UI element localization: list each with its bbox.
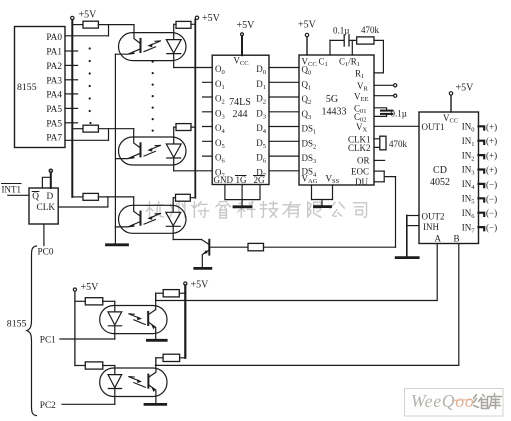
wire opto U9 output junction [155,293,157,300]
svg-text:(+): (+) [486,122,497,132]
ellipsis dots PA bus [89,47,92,124]
pin CLK1 label [348,134,383,144]
svg-text:+5V: +5V [298,20,317,31]
svg-text:CLK: CLK [37,203,56,213]
wire Q-bar output to INT1 [8,194,29,196]
svg-text:OUT2: OUT2 [422,212,445,222]
pin EOC label [351,166,384,176]
svg-text:OR: OR [357,156,370,166]
node +5V bottom-right [184,280,209,291]
wire 470k to R1 pin [374,40,383,73]
wire PA0 junction [108,25,110,36]
svg-text:(−): (−) [486,179,497,189]
svg-text:INH: INH [423,222,439,232]
svg-text:0.1µ: 0.1µ [333,26,349,36]
optocoupler U5 phototransistor [115,197,140,228]
optocoupler U3 light arrow [144,41,161,52]
capacitor C1 0.1u [330,26,357,47]
resistor R7 (Q1 base) [248,243,396,250]
svg-text:+5V: +5V [191,280,210,291]
pin C02 label [354,112,387,124]
wire B to opto PC2 output [155,244,458,366]
pin DU label [355,177,384,187]
wire PA7 junction [108,129,110,141]
resistor R2 (PA7 pull-up) [72,125,133,132]
optocoupler U4 (PA7 channel) body [119,137,187,165]
wire DU to base resistor [395,177,397,248]
brace 8155 port C [27,246,37,416]
pin VSS label [326,174,340,200]
char si [353,203,366,218]
resistor R5 (CLK pull-up) [72,193,133,200]
svg-text:PA3: PA3 [46,76,62,86]
svg-text:4052: 4052 [430,177,450,188]
char jiang [192,202,209,218]
svg-text:WeeQoo: WeeQoo [411,391,474,411]
ground opto emitter rail [107,243,128,246]
pin PA7 label and wire [46,133,108,143]
watermark WeeQoo box [405,389,504,417]
pin PC1 label and wire [40,336,115,346]
svg-text:A: A [435,234,442,244]
optocoupler U10 light arrow [129,377,146,388]
IC U8 CD4052 box [419,112,479,244]
ground Q1 emitter [195,267,211,270]
resistor R12 (PC1 collector pull-up) [156,290,186,297]
pins IN0-IN7 labels [462,122,476,235]
D flip-flop labels [32,192,55,213]
optocoupler U3 (PA0 channel) body [119,33,187,61]
svg-text:GND: GND [214,175,234,185]
optocoupler U10 phototransistor [148,358,156,403]
ellipsis dots opto column [152,61,154,132]
svg-text:EOC: EOC [351,166,369,176]
svg-text:INT1: INT1 [2,185,22,195]
svg-text:PA5: PA5 [46,119,62,129]
pin VR label and terminal [357,81,397,93]
pins IN0-IN7 stubs [479,126,485,230]
pins O1-O6 stubs [203,82,213,156]
pin OR label and stub [357,156,385,166]
pin VAG label [302,174,318,200]
svg-text:(+): (+) [486,151,497,161]
pin Vcc CD4052 [443,92,458,125]
optocoupler U4 LED [166,127,181,171]
wire +5V right rail [194,20,196,198]
svg-text:PA5: PA5 [46,105,62,115]
label 5G 14433 [322,94,347,118]
wire VAG/VSS join [312,200,333,206]
wire INT1 overline [2,183,22,185]
wires D0-D7 to 14433 [269,68,299,171]
ground opto U9 emitter [147,339,166,342]
capacitor C2 0.1u [381,109,407,119]
pin INH label [407,222,440,232]
svg-text:+5V: +5V [202,13,221,24]
label INT1 with overline [2,185,22,195]
svg-text:OUT1: OUT1 [422,122,445,132]
svg-text:(+): (+) [486,136,497,146]
svg-text:8155: 8155 [7,319,27,330]
svg-text:+5V: +5V [456,83,475,94]
svg-text:(−): (−) [486,194,497,204]
wire LED1 cathode to 74LS244 O0 [174,67,213,69]
wire CLK junction to flip-flop [58,197,108,207]
svg-text:0.1µ: 0.1µ [391,109,407,119]
svg-text:(−): (−) [486,208,497,218]
pin PA4 label and stub [46,91,77,101]
D flip-flop U2 box [29,188,58,224]
wire GND/1G/2G join [225,185,260,206]
svg-text:Q: Q [32,192,39,202]
pin OUT2 label [407,212,445,222]
node D input terminal [42,169,52,188]
transistor Q1 [202,240,249,268]
svg-text:470k: 470k [361,25,380,35]
wire VX to OUT1 [374,125,419,127]
pins D0-D7 labels [256,64,267,179]
wire LED3 cathode to Q1 collector [173,239,201,241]
svg-text:DU: DU [355,177,368,187]
wire EOC-DU bracket [384,171,395,182]
node +5V top-left [71,10,98,21]
pins GND 1G 2G labels [214,175,266,185]
svg-text:1G: 1G [236,175,248,185]
svg-text:PA1: PA1 [46,48,62,58]
char you [283,202,300,218]
svg-text:PA2: PA2 [46,62,62,72]
char gong [330,202,345,216]
svg-text:+5V: +5V [81,282,100,293]
optocoupler U9 phototransistor [148,293,156,339]
pin VEE label and terminal [354,91,397,103]
optocoupler U9 light arrow [129,314,146,325]
optocoupler U9 LED [108,301,122,339]
label CD4052 [430,165,450,188]
optocoupler U9 (PC1 channel) body [100,306,167,334]
pin C1/R1 label [339,40,360,68]
optocoupler U5 LED [166,198,181,240]
char rui [216,202,231,219]
pin C1 label [319,40,331,68]
ground 14433 [315,205,331,208]
svg-text:PA7: PA7 [46,133,62,143]
svg-text:CLK2: CLK2 [348,143,371,153]
svg-text:PC1: PC1 [40,336,56,346]
svg-text:8155: 8155 [17,82,37,93]
labels analog input polarity [486,122,497,233]
watermark weiku hanzi [474,394,502,409]
overlines 1G 2G [236,175,265,177]
wire LED2 cathode to 74LS244 O7 [174,170,213,172]
optocoupler U5 (DU channel) body [119,205,187,233]
svg-text:(−): (−) [486,223,497,233]
pin Vcc 74LS244 [233,33,248,67]
optocoupler U10 LED [108,366,122,405]
char ke [237,202,255,218]
resistor R8 470k [357,25,380,44]
svg-text:CD: CD [433,165,447,176]
svg-text:B: B [454,234,460,244]
wire LED4 cathode to PC1 [114,338,116,340]
svg-text:PA4: PA4 [46,91,62,101]
resistor R1 (PA0 pull-up) [72,21,134,28]
svg-text:74LS: 74LS [229,97,251,108]
optocoupler U10 (PC2 channel) body [100,368,167,397]
pin PA2 label and stub [46,62,77,72]
optocoupler U4 light arrow [144,145,161,156]
char xian [308,202,321,218]
pin PA0 label and wire [46,33,108,43]
svg-text:PA0: PA0 [46,33,62,43]
resistor R9 470k (clock) [380,136,408,150]
resistor R3 (LED1 series) [174,21,196,28]
svg-text:14433: 14433 [322,107,347,118]
label Q-bar overline [32,191,39,193]
pin PA1 label and stub [46,48,77,58]
wire OUT2/INH to ground [406,216,408,257]
svg-text:2G: 2G [254,175,266,185]
pin PA6 label and stub [46,119,77,129]
IC 8155 port A box [15,27,66,148]
char ji [260,202,278,218]
wire flip-flop to PC0 [43,224,45,246]
char hang [146,202,164,218]
optocoupler U3 LED [166,24,181,67]
IC U6 74LS244 box [212,55,269,184]
svg-text:PC0: PC0 [38,247,54,257]
pin PA3 label and stub [46,76,77,86]
node +5V top-middle [195,13,220,24]
svg-text:470k: 470k [389,139,408,149]
watermark company text (vector hanzi, light gray) [146,202,367,219]
pins Q0-Q3 DS1-DS4 labels 14433 [302,65,318,179]
IC U7 MC14433 box [299,55,374,185]
node +5V bottom-left [73,282,99,293]
optocoupler U3 phototransistor [115,25,140,55]
pin CLK2 label [348,143,383,153]
wire opto U10 output junction [155,358,157,366]
ground opto U10 emitter [145,403,166,406]
svg-text:(+): (+) [486,165,497,175]
pin PC2 label and wire [40,401,115,411]
pin C01 label [354,103,387,115]
pin Vcc 14433 [302,33,317,68]
label 74LS244 [229,97,251,120]
svg-text:244: 244 [233,109,248,120]
wire emitter rail to ground [114,54,116,243]
ground 74LS244 [234,205,251,208]
svg-text:D: D [47,192,54,202]
svg-text:PC2: PC2 [40,401,56,411]
wire +5V bottom-left rail [74,291,76,365]
pin PA5 label and stub [46,105,77,115]
svg-text:+5V: +5V [237,20,256,31]
resistor R6 (LED3 series) [173,194,195,201]
resistor R10 (LED4 series) [75,298,115,305]
resistor R11 (LED5 series) [75,362,115,369]
wire +5V left rail [71,20,73,197]
wire +5V bottom-right rail [184,285,186,358]
char zhou [170,202,185,218]
resistor R13 (PC2 collector pull-up) [156,354,185,361]
wire A to opto PC1 output [156,244,438,301]
svg-text:5G: 5G [326,94,338,105]
optocoupler U5 light arrow [144,214,161,225]
pins O0-O7 labels [215,64,226,179]
ground OUT2/INH [396,256,418,259]
svg-text:+5V: +5V [79,10,98,21]
optocoupler U4 phototransistor [115,129,140,159]
resistor R4 (LED2 series) [174,124,196,131]
